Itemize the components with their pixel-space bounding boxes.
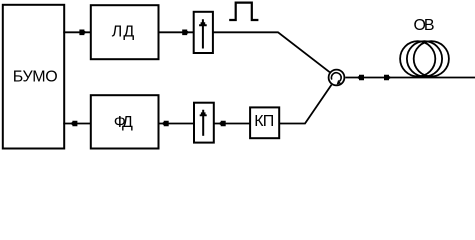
svg-text:ФД: ФД xyxy=(114,114,133,131)
svg-text:ОВ: ОВ xyxy=(414,17,435,34)
svg-text:ЛД: ЛД xyxy=(112,24,135,41)
svg-text:БУМО: БУМО xyxy=(13,69,58,86)
svg-text:КП: КП xyxy=(254,113,274,130)
